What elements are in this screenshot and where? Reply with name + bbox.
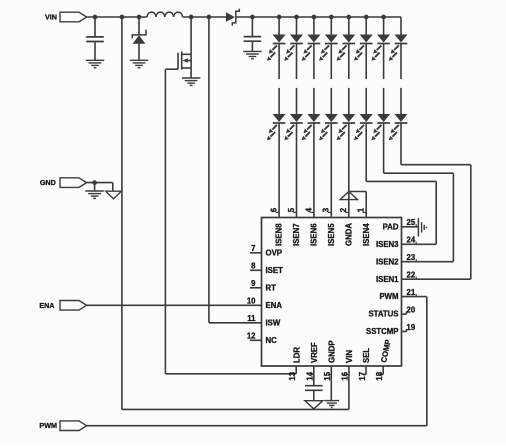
svg-text:ISEN3: ISEN3 [376, 240, 399, 249]
svg-text:21: 21 [407, 288, 416, 297]
svg-text:9: 9 [251, 279, 256, 288]
svg-text:ISEN2: ISEN2 [376, 257, 399, 266]
svg-text:13: 13 [288, 371, 297, 380]
svg-text:20: 20 [407, 306, 416, 315]
svg-text:VREF: VREF [310, 342, 319, 363]
svg-text:VIN: VIN [345, 350, 354, 363]
svg-text:SEL: SEL [362, 348, 371, 363]
svg-text:GNDA: GNDA [344, 223, 353, 246]
svg-text:ISEN1: ISEN1 [376, 275, 399, 284]
svg-text:7: 7 [251, 244, 255, 253]
svg-text:25: 25 [407, 218, 416, 227]
svg-text:ISEN8: ISEN8 [275, 223, 284, 246]
svg-text:3: 3 [322, 207, 331, 212]
svg-text:14: 14 [306, 371, 315, 380]
svg-text:GND: GND [40, 178, 56, 187]
svg-text:4: 4 [304, 207, 313, 212]
svg-text:22: 22 [407, 271, 416, 280]
svg-text:11: 11 [247, 314, 256, 323]
svg-text:1: 1 [357, 207, 366, 212]
svg-text:17: 17 [358, 372, 367, 381]
svg-text:10: 10 [247, 297, 256, 306]
svg-text:ISEN4: ISEN4 [362, 223, 371, 246]
svg-text:NC: NC [266, 336, 278, 345]
svg-text:24: 24 [407, 236, 416, 245]
svg-text:ENA: ENA [266, 301, 283, 310]
svg-text:18: 18 [375, 371, 384, 380]
svg-text:ENA: ENA [39, 301, 54, 310]
svg-text:16: 16 [341, 371, 350, 380]
svg-text:PWM: PWM [39, 421, 57, 430]
svg-text:GNDP: GNDP [328, 340, 337, 363]
svg-text:PWM: PWM [379, 292, 398, 301]
svg-text:ISEN7: ISEN7 [292, 223, 301, 246]
svg-text:VIN: VIN [45, 13, 57, 22]
svg-text:ISEN5: ISEN5 [327, 223, 336, 246]
svg-text:OVP: OVP [266, 248, 282, 257]
svg-text:ISW: ISW [266, 318, 281, 327]
svg-text:5: 5 [287, 207, 296, 212]
svg-text:12: 12 [247, 332, 256, 341]
svg-text:15: 15 [323, 371, 332, 380]
svg-text:ISEN6: ISEN6 [310, 223, 319, 246]
svg-text:PAD: PAD [383, 222, 399, 231]
svg-text:2: 2 [339, 207, 348, 212]
svg-text:6: 6 [270, 207, 279, 212]
svg-text:23: 23 [407, 253, 416, 262]
svg-text:19: 19 [407, 323, 416, 332]
svg-text:SSTCMP: SSTCMP [366, 327, 399, 336]
svg-text:ISET: ISET [266, 266, 284, 275]
svg-text:RT: RT [266, 283, 277, 292]
svg-text:8: 8 [251, 262, 256, 271]
svg-text:STATUS: STATUS [368, 310, 398, 319]
svg-text:LDR: LDR [292, 347, 301, 363]
